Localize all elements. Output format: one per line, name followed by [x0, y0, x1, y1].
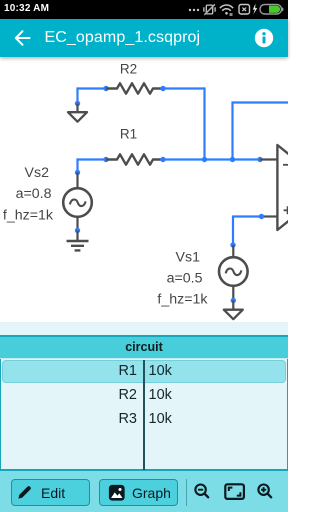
circuit canvas	[0, 57, 288, 322]
op-amp U1 inverting input stub	[260, 158, 277, 160]
svg-text:f_hz=1k: f_hz=1k	[3, 208, 54, 224]
wire R2 right vertical down	[203, 87, 205, 159]
ground G3 triangle	[224, 310, 243, 320]
source Vs2 sine wave	[70, 200, 86, 207]
wire R1 left horizontal	[78, 158, 107, 160]
status icons	[184, 0, 288, 19]
ground G1 triangle	[68, 112, 87, 122]
node R2 ground junction	[75, 101, 80, 106]
battery	[260, 5, 283, 15]
wire Vs2 top vertical	[76, 158, 78, 172]
svg-text:f_hz=1k: f_hz=1k	[157, 292, 208, 308]
app bar	[0, 19, 288, 57]
wire non-inverting horizontal	[233, 215, 262, 217]
node junction R2/R1	[202, 157, 207, 162]
resistor R1	[106, 154, 163, 164]
sim missing icon	[239, 5, 250, 15]
wire inverting input horizontal	[163, 158, 260, 160]
source Vs2 circle	[63, 188, 92, 217]
ground G1 stem	[76, 104, 78, 113]
node non-inverting input	[259, 214, 264, 219]
wifi icon	[220, 5, 233, 16]
charging bolt	[253, 4, 257, 15]
wire R2 right horizontal	[163, 87, 205, 89]
wire R2 left vertical to ground	[76, 87, 78, 103]
status bar	[0, 0, 288, 19]
node Vs2 top	[75, 170, 80, 175]
node Vs2 bottom	[75, 228, 80, 233]
back arrow	[12, 28, 32, 48]
zoom in icon	[255, 482, 275, 502]
mute icon	[204, 4, 215, 15]
op-amp U1 triangle body	[277, 145, 320, 230]
ground G2 earth bars	[67, 241, 89, 250]
svg-text:a=0.8: a=0.8	[16, 186, 52, 202]
info icon	[254, 28, 274, 48]
ground G3 stem	[232, 301, 234, 310]
wire R2 left horizontal	[78, 87, 107, 89]
svg-text:Vs2: Vs2	[25, 165, 50, 181]
source Vs2 bottom lead	[76, 216, 78, 230]
bottom toolbar	[0, 471, 288, 512]
source Vs1 circle	[219, 257, 248, 286]
node R1 right terminal	[160, 157, 165, 162]
op-amp U1 minus sign	[283, 164, 291, 166]
resistor R2	[106, 83, 163, 93]
node R2 left terminal	[103, 86, 108, 91]
svg-text:R1: R1	[120, 127, 137, 142]
op-amp U1 non-inverting input stub	[262, 215, 278, 217]
fit screen icon	[224, 483, 246, 501]
source Vs1 bottom lead	[232, 285, 234, 300]
svg-text:Vs1: Vs1	[176, 250, 201, 266]
svg-text:R2: R2	[120, 62, 137, 77]
node R2 right terminal	[160, 86, 165, 91]
parameter table	[0, 335, 288, 471]
wire feedback horizontal from output	[233, 101, 289, 103]
wire feedback vertical down	[231, 101, 233, 159]
ground G2 stem	[76, 231, 78, 241]
source Vs2 top lead	[76, 173, 78, 189]
node Vs1 top	[230, 242, 235, 247]
svg-text:a=0.5: a=0.5	[167, 271, 203, 287]
op-amp U1 plus sign	[284, 206, 292, 214]
zoom out icon	[192, 482, 212, 502]
node Vs1 bottom	[231, 298, 236, 303]
source Vs1 top lead	[232, 245, 234, 258]
source Vs1 sine wave	[226, 269, 242, 276]
pale strip above table	[0, 322, 288, 336]
more dots	[189, 9, 191, 11]
node junction feedback	[230, 157, 235, 162]
node R1 left terminal	[103, 157, 108, 162]
wire Vs1 top vertical	[232, 215, 234, 245]
node inverting input	[257, 157, 262, 162]
